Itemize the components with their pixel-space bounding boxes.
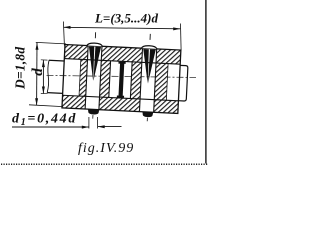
centerline (shaft axis, dash-dot) xyxy=(47,75,197,77)
blackened gap between shaft ends xyxy=(118,62,125,64)
page right border xyxy=(205,0,206,164)
left pin bottom tip xyxy=(88,109,100,115)
right pin U2: hole side lines xyxy=(139,48,142,111)
sleeve outline xyxy=(62,45,181,114)
svg-text:L=(3,5...4)d: L=(3,5...4)d xyxy=(94,10,159,25)
left shaft outside sleeve xyxy=(49,59,64,62)
right pin taper wedges xyxy=(142,49,150,84)
left pin axis ticks xyxy=(94,32,96,38)
right pin head dome xyxy=(141,45,157,49)
left pin U1: hole side lines xyxy=(85,46,88,109)
svg-text:D=1,8d: D=1,8d xyxy=(12,47,27,90)
local section hatch strips around right pin xyxy=(130,62,141,99)
local section hatch strips around left pin xyxy=(79,59,87,96)
right pin axis ticks xyxy=(149,34,151,40)
bore lines xyxy=(64,59,180,65)
left pin taper wedges xyxy=(87,46,94,81)
svg-text:fig.IV.99: fig.IV.99 xyxy=(78,141,134,156)
bottom dotted rule xyxy=(1,163,208,165)
right shaft outside sleeve xyxy=(178,65,187,101)
section break lines in bore xyxy=(79,59,81,96)
sleeve top wall hatch xyxy=(64,45,88,60)
sleeve bottom wall hatch xyxy=(62,95,86,109)
right pin bottom tip xyxy=(142,112,153,118)
left pin head dome xyxy=(87,43,103,47)
